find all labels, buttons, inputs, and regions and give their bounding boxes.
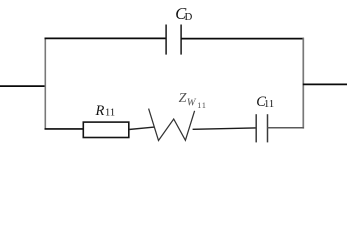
top wire left segment to capacitor CD bbox=[45, 37, 167, 39]
svg-text:11: 11 bbox=[105, 108, 115, 119]
bottom wire from left branch to resistor R11 bbox=[45, 128, 85, 130]
svg-text:D: D bbox=[185, 11, 193, 23]
Warburg element ZW11 zigzag bbox=[149, 109, 195, 141]
capacitor CD right plate bbox=[180, 25, 182, 55]
capacitor C11 left plate bbox=[255, 114, 257, 142]
svg-text:11: 11 bbox=[264, 99, 274, 110]
resistor R11 body bbox=[83, 122, 129, 137]
wire from capacitor C11 to right branch bbox=[268, 127, 305, 129]
svg-text:Z: Z bbox=[179, 91, 187, 106]
right branch vertical wire bbox=[302, 38, 304, 129]
capacitor CD left plate bbox=[165, 25, 167, 55]
right terminal wire bbox=[303, 83, 347, 85]
svg-text:11: 11 bbox=[197, 101, 207, 110]
wire from resistor R11 to Warburg element bbox=[129, 127, 154, 129]
left branch vertical wire bbox=[44, 38, 46, 130]
wire from Warburg element to capacitor C11 bbox=[193, 128, 256, 129]
svg-text:R: R bbox=[95, 103, 105, 119]
svg-text:W: W bbox=[187, 98, 197, 109]
left terminal wire bbox=[0, 85, 46, 87]
capacitor C11 right plate bbox=[267, 114, 269, 142]
top wire right segment from capacitor CD bbox=[181, 38, 304, 40]
